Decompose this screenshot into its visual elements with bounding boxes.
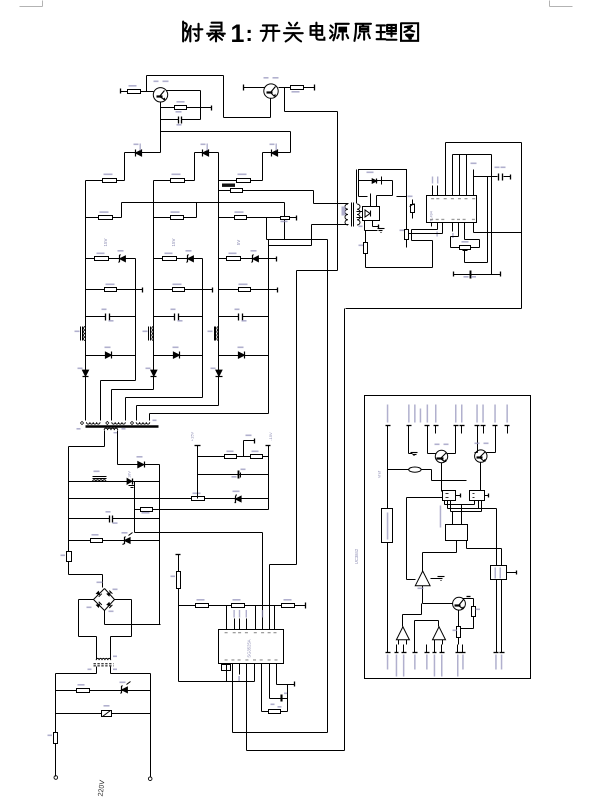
svg-text:15V: 15V	[171, 238, 176, 246]
svg-text:15V: 15V	[103, 238, 108, 246]
svg-text:SG3525A: SG3525A	[247, 639, 252, 657]
svg-text:Vref: Vref	[377, 470, 382, 478]
svg-text::: :	[246, 21, 253, 46]
svg-text:18V: 18V	[128, 471, 132, 478]
svg-text:TL494: TL494	[430, 211, 434, 222]
svg-text:-15V: -15V	[268, 432, 273, 441]
svg-text:+15V: +15V	[190, 431, 195, 441]
svg-text:UC3842: UC3842	[354, 548, 359, 564]
svg-text:5V: 5V	[236, 240, 241, 246]
svg-text:1: 1	[231, 20, 245, 48]
